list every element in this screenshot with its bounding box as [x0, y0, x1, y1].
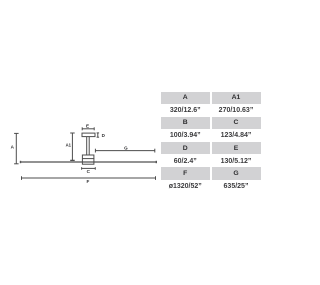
svg-text:E: E: [86, 123, 89, 128]
svg-text:C: C: [87, 169, 91, 174]
svg-text:A1: A1: [66, 143, 72, 148]
svg-text:F: F: [86, 179, 89, 184]
svg-text:A: A: [11, 145, 15, 150]
svg-text:G: G: [124, 146, 128, 151]
svg-text:D: D: [102, 133, 106, 138]
